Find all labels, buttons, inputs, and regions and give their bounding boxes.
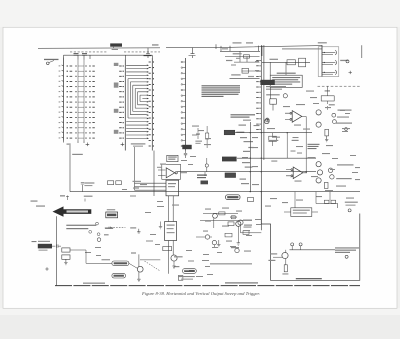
switch wafer 4 contacts [119,66,124,139]
text: rail label [152,44,159,45]
rotary switch SW-A wafer 6 [185,58,187,151]
node: power sw terminal circle [47,62,50,65]
node: circled junctions [96,222,99,225]
ground: attenuator [64,259,67,265]
op-amp U3 (sweep start amp) with enclosure [162,164,181,179]
text: label under box [112,49,118,50]
text: Q7 label [174,256,183,257]
resistor: Q8 base [228,222,234,226]
text: PIN label [340,60,348,61]
op-amp U1 (delay comparator) [285,111,306,123]
text: mid label [292,140,299,141]
text: rows under stadium [179,276,195,277]
wire: vertical riser x=287 [286,133,288,159]
ground: under resistor [325,136,328,142]
node: circled junction 1 [291,243,294,246]
wire: rail drop stubs [216,44,262,56]
wire: IC2 bottom drops [169,241,174,274]
text: feed label 2 [226,60,232,61]
wire: pickoff drop [271,87,274,110]
wire: IC1 to IC2 [169,196,174,222]
annotation arrow: SEE ADJUST PROCEDURE (filled) [53,206,92,216]
resistor R: feed row component [244,55,250,58]
text: under Q8 [231,247,239,248]
text: TP label [325,90,330,91]
resistor: right lower [324,182,328,188]
text: delay label [329,104,335,105]
text: SWP label [231,74,240,75]
wire: Q6 verticals [138,254,140,279]
text: connector top label [318,42,327,43]
text: annotation under rail [225,282,258,283]
text: 1 SWEEP TIME/DIV note [131,143,146,144]
text: gate label [270,253,277,254]
small boxes above bus right [108,181,114,185]
text: IC1 rows [168,183,176,184]
resistor: below wafer6 right [205,133,208,139]
text: trig labels [239,125,247,126]
text: sweep gen block rows [272,77,300,85]
label box: READOUT (inverse) [260,80,274,85]
text: box rows [168,157,177,160]
board outline: sweep control board A3 [261,192,360,281]
text: HORIZONTAL DISPLAY [231,114,256,118]
ground: cluster [217,245,220,247]
node: plus mark lower left [45,267,48,270]
resistor: above Q7 [163,247,172,251]
text: plus [104,234,109,235]
wire: vertical feed riser [134,147,136,190]
svg-text:Figure 8-38. Horizontal and V: Figure 8-38. Horizontal and Vertical Out… [141,291,260,296]
text: TP label left [60,195,65,196]
wire: board internal bus [290,249,336,251]
connector J1: vertical body [321,45,323,76]
text: FROM POWER SW [44,59,59,60]
capacitor: hang under bus [204,172,206,176]
transistor Q2 [316,122,321,127]
capacitor: upper cluster [105,227,113,229]
connector J1: outline [318,47,339,77]
label box: ext horiz (stadium) [226,195,240,200]
text: right chain label [345,202,358,203]
switch wafer 6 contacts [181,61,185,147]
capacitor: input coupling [52,244,61,247]
lamp DS: light circle [283,94,287,98]
text: +LIGHT label [337,164,354,165]
stadium label: trig coupling (inverse) [112,273,126,278]
text: scattered component value labels [85,48,360,277]
wire: wafer top interconnect [64,54,153,60]
ground: mid [137,229,140,233]
text: +12V label [233,53,242,54]
text: LIGHT CENTER [266,94,280,95]
resistor: Q9 source [284,265,287,272]
transistor Q4 [317,170,322,175]
transistor Q14 [235,248,239,252]
switch wafer 2 contacts [75,66,86,139]
node: circled TP [97,238,101,242]
transistor Q7 [171,255,177,261]
text: light pa rows [308,144,320,149]
lamp circle right 2 [333,120,337,124]
node: pin circle [346,60,349,63]
text: label above bus [84,182,94,183]
ground: Q8 [237,226,240,245]
label box: SWEEP LENGTH (inverse) [182,145,191,149]
trimmer capacitors on interconnect [74,54,88,56]
transistor Q10 [213,213,218,218]
transistor Q15 [328,168,332,172]
text: light row [338,110,352,111]
transistor Q12 [205,235,209,239]
switch SW-B contacts [256,60,260,130]
text: next to box [236,132,244,133]
capacitor: below wafer6 right [196,128,200,139]
resistor: above block [287,60,295,65]
wire: chain verticals [327,86,329,110]
block: delay pickoff box [270,99,277,104]
wire: box feeds [284,211,318,213]
rotary switch SW-A wafer 4 [124,60,126,151]
wire: vertical riser x=250.3 [249,122,251,192]
block: attenuator box 2 [62,255,70,259]
switch wafer 5 contacts [149,62,154,147]
wire: +12V feeds to ramp block [135,147,167,190]
wire: ext trig run [70,250,112,263]
text: schematic note paragraph [202,85,241,97]
block: ramp IC 1 [166,180,179,196]
wire: vertical riser x=154 [153,151,155,197]
trimmer capacitor above wafer 6 [189,48,196,58]
label box: SWEEP TIME/DIV (inverse) [110,43,122,46]
ground: Q6 emitter [137,279,140,281]
text: note row 2 [133,146,143,147]
resistor: feed row 3 [242,68,248,73]
text: board name on outline [296,278,322,279]
text: lamp label [172,205,179,206]
text: label on vertical wire [72,154,83,155]
text: +LIGHT label2 [336,178,352,179]
resistor: chain box 2 [331,200,336,203]
text: cluster label [105,227,113,228]
text: +15V [248,147,253,148]
text: Q8 labels [243,220,252,221]
wire: feed row verticals [240,51,247,62]
wire: dashed readout line [318,85,362,87]
text: +15V [131,252,136,253]
op-amp U2 (trigger comparator) [286,167,307,179]
wire: cluster mid run [196,237,219,248]
switch wafer 3 contacts [89,66,95,139]
text: under resistor [282,273,288,274]
wire: bus drops to board boxes [295,192,330,208]
block: chain box [321,96,334,101]
text: marks inside comparator area [291,137,304,154]
wire: stadium to Q6 [129,263,137,268]
wire: holdoff bus y=191.6 [70,191,360,193]
text: above time/div [107,209,115,210]
text: DLYD labels [197,175,207,176]
node: circled junction above bus [205,164,208,167]
text: above stadium1 [102,259,111,260]
wire: bus y=132.7 [70,117,360,192]
wire: dashed coupling [145,261,161,271]
rotary switch SW-B wafer (right, section boundary) [261,45,264,230]
capacitor under wafer 6 [184,151,187,159]
node: circled terminal top [348,209,351,212]
ground: under Q7 [172,261,175,268]
rotary switch SW-A wafer 5 [151,58,153,151]
trimmer capacitor above wafer 5 [144,48,152,58]
block: attenuator box 1 [62,248,70,252]
resistor: chain box 1 [324,200,329,203]
label box: DLYD TRIG (inverse) [222,157,237,162]
transistor Q: horiz display switch [264,119,269,124]
rotary switch SW-A wafer 2 (ladder) [78,60,84,141]
text: GATE [268,260,275,261]
wire: dashed holdoff [111,226,126,228]
transistor Q3 [316,162,321,167]
switch wafer 1 contacts [67,66,73,139]
wire: wafer1 line down to holdoff bus [69,145,71,192]
ground: left of IC2 [159,222,162,229]
transistor Q9 (FET) [282,252,288,258]
lamp circle right [332,113,336,117]
block: time/div label box above U3 [167,155,178,161]
wire: second top right rail [282,48,322,50]
text: board text left [210,263,252,264]
label box: DLYD trig pickoff (dark) [201,181,209,185]
wire: +12V feed row [220,51,260,78]
text: feed labels [133,181,142,182]
node: small indicator circle [345,128,348,131]
block: small box below [178,276,183,281]
stadium label: trig level (inverse) [183,269,197,274]
test point TP: circled cross [265,118,269,122]
block: unreg supply box [291,208,312,217]
text: rail right label [233,42,242,43]
text: delayed gate out rows [335,247,359,253]
connector J1 pins [322,50,337,75]
transistor Q6 [137,266,143,272]
wire: vertical riser x=306 [305,117,307,172]
wire: nested timing interconnect (staircase) [126,65,149,140]
node: circled terminal [345,255,348,258]
text: annotation above rail left [31,201,106,284]
text: cluster labels [203,208,252,252]
wire: top chain [316,204,338,209]
text: sweep label [84,196,93,197]
wire: top right corner stub [361,45,363,58]
text: +15V mid [130,227,136,228]
junction dots on buses [250,132,307,192]
text: box row1 [293,210,310,211]
wire: bus y=158 [237,157,316,159]
wire: bottom emphasized rail [55,285,360,287]
block: sweep generator section label box [270,75,302,87]
stadium label: trig source (inverse) [112,261,129,266]
text: ramp label [174,266,180,267]
label box: single sweep [225,173,236,178]
resistor: above block 2 [299,58,306,67]
node: plus mark [349,71,352,74]
resistor: hanging under bus [269,136,277,141]
resistor: cluster boxes [219,212,225,215]
text: IC2 rows [167,225,175,226]
text: +15V label [67,144,71,145]
text: delay mult readout [277,73,296,74]
resistor: right vertical [325,129,329,136]
wire: top dashed rail overlay [70,51,160,53]
resistor: riser component [248,198,254,202]
node: circled junction 2 [299,243,302,246]
wire: trigger cluster top run [200,213,261,233]
wire: into sweep gen block [262,62,310,75]
component: stub above bus [81,183,84,192]
transistor Q13 [212,240,216,244]
text: +12V label [270,59,279,60]
transistor Q11 [238,220,243,225]
label box: TIME/DIV bordered [106,212,118,218]
transistor Q16 [330,175,334,179]
node: circled junction on bus [290,177,292,179]
text: wafer6 note [195,141,202,142]
transistor Q1 [316,110,321,115]
label box: EXT TRIG (inverse) [38,244,52,249]
text: LIGHT label [336,123,352,124]
wire: Q6 collector right [140,259,160,261]
switch wafer 1 pin numbers [59,65,61,138]
wire: lower section left frame [56,216,58,285]
text: readout row2 [266,86,286,87]
ground: wafer bottoms [64,141,125,147]
wire: top rail (sweep timing bus) [38,46,322,49]
transistor Q5 [316,178,321,183]
text: wafer function labels [114,63,119,134]
wire: op-amp output bus y=171.7 [177,171,316,173]
block: ramp IC 2 [165,222,177,241]
transistor Q8 [236,221,241,226]
label box: MAIN TRIG (bordered) [224,130,235,135]
rotary switch SW-A wafer 1 (TIME/DIV) [62,58,64,141]
text: holdoff rows [66,225,96,230]
text: ext input label [38,241,50,242]
